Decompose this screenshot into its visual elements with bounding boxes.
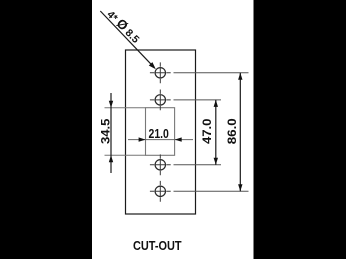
hole H1	[150, 62, 171, 83]
svg-text:CUT-OUT: CUT-OUT	[133, 238, 182, 253]
dimension 47.0 line	[214, 100, 218, 165]
panel outline	[126, 50, 196, 214]
extension line from H1	[174, 72, 249, 74]
dimension 86.0 line	[238, 73, 242, 192]
cut-out square	[146, 108, 175, 156]
hole H3	[150, 154, 171, 175]
extension line square top	[105, 107, 146, 109]
dimension 21.0 line	[128, 137, 193, 141]
extension line square bottom	[105, 154, 146, 156]
leader line 4x holes	[100, 11, 156, 69]
extension line from H3	[174, 164, 222, 166]
hole H4	[150, 181, 171, 202]
svg-text:34.5: 34.5	[99, 118, 113, 144]
svg-text:21.0: 21.0	[149, 127, 169, 141]
extension line from H2	[174, 99, 222, 101]
hole H2	[150, 90, 171, 111]
dimension 34.5 line	[109, 93, 113, 173]
svg-text:86.0: 86.0	[225, 118, 239, 144]
white page column	[92, 0, 254, 259]
svg-text:47.0: 47.0	[200, 118, 214, 144]
extension line from H4	[174, 190, 249, 192]
